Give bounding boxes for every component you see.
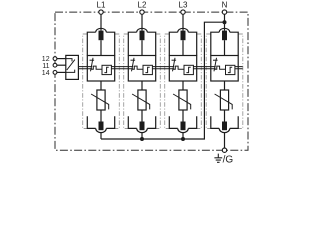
wire varistor to bottom disconnector module N <box>224 110 226 122</box>
thermal disconnector (bottom) module L2: bypass arc <box>137 128 148 132</box>
trip linkage meander module N <box>214 66 225 69</box>
wire disconnector to switch box module N <box>224 40 226 55</box>
thermal disconnector (top) module L1: bypass arc <box>96 28 107 32</box>
thermal disconnector (top) module L3: side arms <box>169 32 196 55</box>
mechanical link signalling box to module L1 <box>78 67 87 69</box>
module L2 plug-in enclosure (dash-dot) <box>124 34 161 129</box>
thermal disconnector (bottom) module N: fuse element <box>222 122 227 131</box>
svg-text:L1: L1 <box>97 0 106 9</box>
varistor module L2 <box>138 90 146 110</box>
trip device box module L2 <box>143 65 152 74</box>
thermal disconnector (bottom) module L1: side arms <box>87 116 114 128</box>
svg-text:14: 14 <box>42 70 50 77</box>
thermal disconnector (bottom) module N: side arms <box>211 116 238 128</box>
varistor module N <box>220 90 228 110</box>
junction dot bus/L2 <box>140 137 144 141</box>
integral glyph module L2 <box>145 67 149 72</box>
thermal disconnector (bottom) module L2: fuse element <box>140 122 145 131</box>
module N plug-in enclosure (dash-dot) <box>206 34 243 129</box>
mechanical link (right pair) module N <box>235 67 238 69</box>
wire varistor to bottom disconnector module L1 <box>100 110 102 122</box>
wire bottom disconnector to N-bus module L1 <box>100 133 102 139</box>
wire switch box to varistor module L3 <box>182 81 184 90</box>
monitoring/disconnect switch box module L2 <box>128 56 155 82</box>
monitoring/disconnect switch box module N <box>211 56 238 82</box>
wire terminal 12 <box>55 58 66 60</box>
monitoring/disconnect switch box module L1 <box>87 56 114 82</box>
mechanical link module L2 to L3 <box>156 67 170 69</box>
fixed contact tick module L2 <box>131 59 136 61</box>
integral glyph module N <box>228 67 232 72</box>
fixed contact tick module L3 <box>172 59 177 61</box>
varistor strike-through module L3 <box>173 94 191 109</box>
thermal disconnector (top) module N: bypass arc <box>219 28 230 32</box>
terminal L2 <box>140 10 144 14</box>
terminal L1 <box>99 10 103 14</box>
terminal 11 <box>53 63 57 67</box>
switch blade module N <box>214 58 217 72</box>
module L3 plug-in enclosure (dash-dot) <box>165 34 202 129</box>
wire disconnector to switch box module L2 <box>141 40 143 55</box>
terminal N <box>222 10 226 14</box>
thermal disconnector (top) module L2: bypass arc <box>137 28 148 32</box>
thermal disconnector (bottom) module L3: fuse element <box>181 122 186 131</box>
thermal disconnector (top) module L1: fuse element <box>99 31 104 41</box>
module L1 plug-in enclosure (dash-dot) <box>83 34 120 129</box>
wire varistor to bottom disconnector module L3 <box>182 110 184 122</box>
svg-text:N: N <box>222 0 228 9</box>
thermal disconnector (top) module L2: fuse element <box>140 31 145 41</box>
wire switch box to varistor module N <box>224 81 226 90</box>
svg-text:11: 11 <box>42 63 49 70</box>
varistor strike-through module L2 <box>132 94 150 109</box>
svg-text:L2: L2 <box>138 0 147 9</box>
wire disconnector to switch box module L3 <box>182 40 184 55</box>
integral glyph module L3 <box>186 67 190 72</box>
trip device box module N <box>226 65 235 74</box>
wire N terminal to top disconnector <box>224 14 226 31</box>
ground terminal <box>222 148 226 152</box>
terminal 14 <box>53 71 57 75</box>
mechanical link (left pair) module L3 <box>169 67 174 69</box>
wire terminal 11 <box>55 64 66 66</box>
trip device box module L1 <box>102 65 111 74</box>
junction dot at N feed <box>223 20 227 24</box>
switch blade module L2 <box>132 58 135 72</box>
switch blade module L3 <box>173 58 176 72</box>
mechanical link (left pair) module L1 <box>87 67 92 69</box>
wire switch box to varistor module L2 <box>141 81 143 90</box>
mechanical link (right pair) module L1 <box>111 67 114 69</box>
wire varistor to bottom disconnector module L2 <box>141 110 143 122</box>
thermal disconnector (top) module L3: fuse element <box>181 31 186 41</box>
outer device enclosure (dash-dot border) <box>55 12 248 150</box>
wire terminal 14 <box>55 71 66 73</box>
trip device box module L3 <box>184 65 193 74</box>
N bus (bottom) wire <box>101 22 225 139</box>
mechanical link (left pair) module N <box>211 67 216 69</box>
trip linkage meander module L2 <box>132 66 143 69</box>
wire L1 terminal to top disconnector <box>100 14 102 31</box>
contact 12 fixed contact <box>66 59 72 62</box>
wire disconnector to switch box module L1 <box>100 40 102 55</box>
changeover blade 11 <box>67 60 75 70</box>
wire L2 terminal to top disconnector <box>141 14 143 31</box>
terminal 12 <box>53 57 57 61</box>
thermal disconnector (top) module L3: bypass arc <box>178 28 189 32</box>
varistor module L1 <box>97 90 105 110</box>
trip linkage meander module L1 <box>91 66 102 69</box>
wire module N to ground terminal <box>224 133 226 149</box>
trip linkage meander module L3 <box>173 66 184 69</box>
thermal disconnector (bottom) module L1: fuse element <box>99 122 104 131</box>
wire switch box to varistor module L1 <box>100 81 102 90</box>
terminal L3 <box>181 10 185 14</box>
svg-text:/G: /G <box>223 155 234 164</box>
varistor strike-through module L1 <box>91 94 109 109</box>
thermal disconnector (bottom) module L3: bypass arc <box>178 128 189 132</box>
junction dot bus/L3 <box>181 137 185 141</box>
thermal disconnector (top) module N: side arms <box>211 32 238 55</box>
wire L3 terminal to top disconnector <box>182 14 184 31</box>
thermal disconnector (bottom) module N: bypass arc <box>219 128 230 132</box>
mechanical link module L1 to L2 <box>115 67 129 69</box>
thermal disconnector (top) module L2: side arms <box>128 32 155 55</box>
switch blade module L1 <box>91 58 94 72</box>
contact 14 fixed contact <box>66 70 75 73</box>
thermal disconnector (top) module L1: side arms <box>87 32 114 55</box>
mechanical link (left pair) module L2 <box>128 67 133 69</box>
wire bottom disconnector to N-bus module L3 <box>182 133 184 139</box>
integral glyph module L1 <box>104 67 108 72</box>
thermal disconnector (bottom) module L3: side arms <box>169 116 196 128</box>
fixed contact tick module N <box>213 59 218 61</box>
mechanical link (right pair) module L3 <box>193 67 196 69</box>
ground symbol <box>214 154 222 163</box>
thermal disconnector (bottom) module L2: side arms <box>128 116 155 128</box>
mechanical link (right pair) module L2 <box>152 67 155 69</box>
wire bottom disconnector to N-bus module L2 <box>141 133 143 139</box>
thermal disconnector (top) module N: fuse element <box>222 31 227 41</box>
varistor module L3 <box>179 90 187 110</box>
mechanical link stub right of module N <box>238 67 242 69</box>
remote signalling contact box (11/12/14) <box>66 55 79 79</box>
fixed contact tick module L1 <box>90 59 95 61</box>
mechanical link module L3 to N <box>197 67 211 69</box>
varistor strike-through module N <box>215 94 233 109</box>
monitoring/disconnect switch box module L3 <box>169 56 196 82</box>
svg-text:L3: L3 <box>179 0 188 9</box>
thermal disconnector (bottom) module L1: bypass arc <box>96 128 107 132</box>
